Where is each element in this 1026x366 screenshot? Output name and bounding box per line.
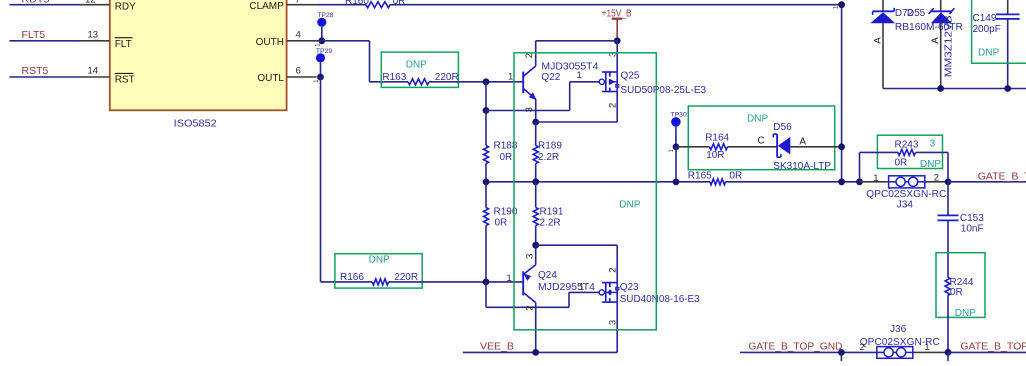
svg-text:DNP: DNP [406,59,427,70]
svg-text:DNP: DNP [619,200,640,211]
svg-text:RDY5: RDY5 [22,0,50,5]
wire R166 to Q24 base [389,281,524,283]
svg-text:SUD50P08-25L-E3: SUD50P08-25L-E3 [621,85,707,96]
svg-text:10R: 10R [706,150,724,161]
junction R189 bottom [532,178,539,185]
IC pin 12 RDY [80,0,136,12]
svg-text:A: A [799,137,806,148]
svg-text:FLT5: FLT5 [22,29,46,41]
svg-text:2: 2 [934,172,939,183]
testpoint TP29 [314,48,332,83]
svg-text:1: 1 [579,282,584,293]
svg-text:3: 3 [524,107,535,112]
svg-text:1: 1 [508,72,513,83]
resistor R244 0R [945,277,974,352]
svg-text:0R: 0R [500,152,513,163]
wire OUTH to corner [317,40,370,42]
junction D56 anode to clamp rail [838,143,845,150]
svg-text:DNP: DNP [747,114,768,125]
svg-text:7: 7 [295,0,300,6]
wire R244 stub down [947,352,949,361]
svg-text:J34: J34 [897,199,914,210]
diode D72 MM3Z12VB zener [895,0,955,89]
svg-text:4: 4 [296,29,301,40]
junction base node top [483,78,490,85]
IC pin 13 FLT (active low) [80,30,133,50]
svg-text:3: 3 [930,138,936,149]
svg-text:C: C [758,136,765,147]
DNP box for R244 [936,253,985,318]
transistor Q23 SUD40N08-16-E3 N-MOSFET [579,245,700,352]
DNP box for R166 [335,254,422,288]
junction top-right corner [838,1,845,8]
junction GND stub [838,349,845,356]
svg-text:C153: C153 [960,213,984,224]
svg-text:1: 1 [873,173,878,184]
resistor R190 0R [484,182,518,282]
svg-text:R189: R189 [538,141,562,152]
wire vertical x=842 clamp rail down to gate node [841,5,843,182]
svg-text:R160: R160 [345,0,369,7]
wire R163 to Q22 base [429,81,523,83]
wire base node down to aux row [485,282,487,307]
resistor R191 2.2R [533,182,564,245]
svg-text:2: 2 [607,268,618,273]
svg-text:13: 13 [88,30,99,41]
IC U - ISO5852 gate driver body [110,0,287,130]
wire aux up to Q23 gate level [568,292,570,307]
svg-text:VEE_B: VEE_B [480,341,514,353]
resistor R188 0R [484,111,518,182]
capacitor C149 200pF [973,0,1020,89]
testpoint TP30 [669,111,687,152]
svg-text:1: 1 [577,70,582,81]
svg-text:14: 14 [88,65,99,76]
transistor Q25 SUD50P08-25L-E3 P-MOSFET [577,41,707,122]
testpoint TP28 [315,12,333,47]
wire gate output row [486,181,860,183]
svg-text:Q24: Q24 [538,270,557,281]
resistor R163 220R [382,72,458,85]
svg-text:D72: D72 [895,8,914,19]
svg-text:DNP: DNP [920,159,941,170]
svg-text:0R: 0R [950,287,963,298]
svg-text:Q22: Q22 [541,72,560,83]
svg-text:QPC02SXGN-RC: QPC02SXGN-RC [866,189,946,200]
power port +15V_B [602,8,632,41]
svg-text:DNP: DNP [978,48,999,59]
DNP box for R164 D56 [688,106,834,170]
junction OUTL/TP29 [317,74,324,81]
net GATE_B_TOP_GND wire [740,341,877,353]
wire aux row horizontal [486,306,569,308]
IC pin 4 OUTH [256,29,317,48]
DNP box for R243 [877,135,942,168]
wire into R163 [370,81,409,83]
resistor R189 2.2R [533,122,562,182]
connector J36 QPC02SXGN-RC [860,324,940,359]
IC pin 6 OUTL [257,65,316,84]
wire into R166 [321,281,373,283]
wire J36 pin1 to junction [913,351,948,353]
junction OUTH/TP28 [318,37,325,44]
svg-text:GATE_B_TOP_GND: GATE_B_TOP_GND [748,341,842,353]
junction R244 bottom [945,349,952,356]
wire OUTL down left column [320,77,322,282]
wire top-right row [883,88,1026,90]
resistor R243 0R [860,140,949,182]
svg-text:R165: R165 [688,170,712,181]
svg-text:OUTH: OUTH [256,37,284,48]
IC pin 14 RST (active low) [80,65,135,85]
junction base node bottom [483,279,490,286]
svg-text:RST: RST [115,74,135,85]
junction clamp rail [838,178,845,185]
svg-text:12: 12 [85,0,96,6]
svg-text:10nF: 10nF [961,224,984,235]
transistor Q24 MJD2955T4 PNP [507,245,596,352]
wire base node down [485,82,487,111]
connector J34 QPC02SXGN-RC [860,172,948,210]
svg-text:MJD2955T4: MJD2955T4 [538,282,595,293]
junction TP30 column [673,178,680,185]
svg-text:DNP: DNP [955,308,976,319]
svg-text:R191: R191 [540,207,564,218]
svg-text:CLAMP: CLAMP [249,1,284,12]
svg-text:R163: R163 [382,72,406,83]
svg-text:A: A [873,37,884,44]
transistor Q22 MJD3055T4 NPN [508,41,599,122]
svg-text:2: 2 [524,53,535,58]
svg-text:J36: J36 [890,324,907,335]
svg-text:2: 2 [607,103,618,108]
resistor R160 0R [345,0,405,8]
resistor R165 0R [688,170,742,184]
svg-text:TP28: TP28 [317,12,333,19]
diode D55 RB160M-60TR schottky [870,0,963,89]
svg-text:DNP: DNP [369,254,390,265]
svg-text:0R: 0R [393,0,406,7]
svg-text:Q25: Q25 [621,70,640,81]
svg-text:TP30: TP30 [671,111,687,118]
junction gate path top [483,107,490,114]
junction D72 anode [937,85,944,92]
junction TP30/R164 node [673,143,680,150]
net RST5 wire [10,65,81,77]
wire CLAMP to R160 [317,4,366,6]
svg-text:MM3Z12VB: MM3Z12VB [944,15,955,77]
wire GND stub down [840,352,842,361]
net VEE_B wire [463,341,617,353]
DNP box around booster stage [514,53,656,330]
svg-text:RST5: RST5 [22,65,49,77]
junction R188 bottom [483,178,490,185]
wire +15V rail to Q22 collector [536,40,618,42]
net GATE_B_TOP wire right [948,341,1026,353]
junction R243 right / C153 top [945,178,952,185]
diode D56 SK310A-LTP schottky [728,122,842,172]
wire corner down to R163 row [369,41,371,82]
wire TP30 node down to gate row [675,147,677,182]
junction R243 left [856,178,863,185]
wire R160 to top-right corner [390,4,842,6]
svg-text:GATE_B_TOP: GATE_B_TOP [978,171,1026,183]
junction +15V rail [614,37,621,44]
junction Q24 collector to VEE [532,349,539,356]
capacitor C153 10nF [938,182,985,277]
junction C149 bottom [1004,85,1011,92]
svg-text:SUD40N08-16-E3: SUD40N08-16-E3 [620,294,700,305]
svg-text:6: 6 [296,65,301,76]
svg-text:2: 2 [525,305,536,310]
DNP box for C149 [972,0,1026,63]
wire gate path horizontal [486,110,570,112]
svg-text:2.2R: 2.2R [540,217,561,228]
svg-text:R166: R166 [340,272,364,283]
svg-text:ISO5852: ISO5852 [174,118,217,130]
wire emitter node to Q25 drain [536,121,618,123]
svg-text:Q23: Q23 [620,282,639,293]
svg-text:OUTL: OUTL [257,73,284,84]
svg-text:2.2R: 2.2R [538,152,559,163]
junction Q24 emitter node [532,242,539,249]
DNP box for R163 [381,52,458,87]
svg-text:SK310A-LTP: SK310A-LTP [773,161,831,172]
svg-text:0R: 0R [729,170,742,181]
svg-text:D56: D56 [773,122,792,133]
svg-text:RDY: RDY [115,1,136,12]
wire gate path up [569,82,571,111]
wire emitter node to Q23 drain [536,244,618,246]
svg-text:FLT: FLT [115,39,132,50]
resistor R166 220R [340,272,418,285]
svg-text:200pF: 200pF [973,24,1001,35]
resistor R164 10R [676,133,730,161]
net FLT5 wire [10,29,81,41]
svg-text:1: 1 [924,342,929,353]
svg-text:R164: R164 [705,133,729,144]
svg-text:3: 3 [525,254,536,259]
svg-text:TP29: TP29 [316,48,332,55]
svg-text:R243: R243 [895,140,919,151]
svg-text:A: A [930,37,941,44]
net GATE_B wire [948,171,1026,183]
wire to Q25 gate [570,81,600,83]
svg-text:0R: 0R [495,217,508,228]
net RDY5 wire [10,0,81,5]
svg-text:GATE_B_TOP: GATE_B_TOP [960,341,1026,353]
junction Q22 emitter node [532,119,539,126]
IC pin 7 CLAMP [249,0,316,12]
svg-text:3: 3 [607,320,618,325]
svg-text:C149: C149 [973,13,997,24]
svg-text:0R: 0R [895,158,908,169]
wire to Q23 gate [569,291,599,293]
svg-text:2: 2 [860,342,865,353]
svg-text:1: 1 [507,273,512,284]
